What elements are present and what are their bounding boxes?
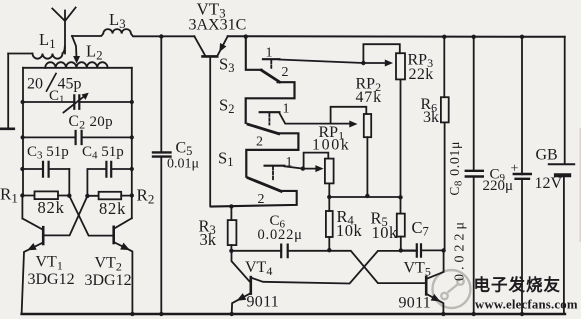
transistor VT5 9011 [426, 251, 443, 315]
svg-text:10k: 10k [372, 223, 399, 242]
inductor L3 [72, 29, 194, 36]
svg-text:www.elecfans.com: www.elecfans.com [475, 298, 578, 312]
svg-text:C8 0.01μ: C8 0.01μ [447, 141, 465, 196]
antenna [52, 8, 75, 54]
wire tank box left edge [22, 68, 24, 196]
svg-text:82k: 82k [99, 199, 126, 218]
svg-text:0.022μ: 0.022μ [453, 218, 468, 281]
potentiometer RP1 100k [325, 159, 334, 211]
wire antenna to ground [7, 54, 9, 128]
transistor VT2 3DG12 [69, 196, 132, 314]
wire S1 pos1 to RP1 (wiper + top) [284, 153, 328, 172]
wire S2 pos1 to RP2 (wiper + top) [279, 107, 366, 127]
svg-text:2: 2 [258, 192, 265, 207]
resistor R3 3k [228, 206, 237, 250]
wire top +V rail [228, 35, 565, 38]
svg-text:3k: 3k [423, 109, 439, 126]
capacitor C7 [401, 244, 444, 256]
resistor R4 10k [326, 211, 333, 250]
capacitor C1 (variable 20/45p) [23, 93, 132, 112]
switch S3 [246, 37, 295, 123]
wire S3 pos1 to RP3 (wiper + top) [279, 44, 399, 66]
svg-text:2: 2 [256, 135, 263, 150]
capacitor C9 220u electrolytic [514, 37, 531, 314]
svg-text:47k: 47k [356, 89, 382, 106]
svg-text:2: 2 [282, 65, 289, 80]
resistor R1 82k [22, 191, 69, 199]
svg-text:9011: 9011 [247, 294, 280, 311]
svg-text:1: 1 [283, 102, 290, 117]
inductor L2 (on tank box top edge, antenna tap arrow) [23, 36, 132, 68]
watermark elecfans [433, 270, 471, 308]
potentiometer RP2 47k [364, 114, 371, 195]
resistor R5 10k [397, 197, 405, 250]
inductor L1 [8, 47, 65, 59]
transistor VT1 3DG12 [22, 196, 88, 315]
svg-text:电子发烧友: 电子发烧友 [474, 275, 562, 295]
svg-text:3DG12: 3DG12 [85, 272, 132, 289]
svg-text:20: 20 [27, 76, 43, 93]
svg-text:3k: 3k [200, 230, 217, 249]
wire RP1/RP2/RP3 bottoms to R5 top [329, 196, 400, 198]
wire bottom rail [22, 313, 565, 315]
svg-text:GB: GB [536, 147, 558, 164]
battery GB 12V [549, 37, 574, 314]
svg-text:82k: 82k [38, 198, 65, 217]
capacitor C2 20p [23, 131, 132, 144]
svg-text:+: + [511, 162, 519, 177]
svg-text:0.022μ: 0.022μ [258, 227, 303, 243]
capacitor C8 0.01u (label vertical) [466, 37, 483, 314]
ground [0, 128, 14, 131]
svg-text:12V: 12V [535, 175, 563, 192]
svg-text:3AX31C: 3AX31C [189, 17, 247, 34]
svg-text:45p: 45p [58, 76, 82, 93]
svg-text:9011: 9011 [399, 295, 432, 312]
resistor R2 82k [87, 192, 131, 200]
svg-text:0.01μ: 0.01μ [167, 157, 199, 172]
svg-text:1: 1 [266, 46, 273, 61]
resistor R6 3k [441, 37, 449, 251]
capacitor C5 0.01u [153, 37, 171, 315]
transistor VT3 3AX31C (PNP) [194, 36, 227, 206]
capacitor C4 51p [87, 162, 131, 196]
capacitor C3 51p [22, 162, 69, 196]
wire tank box right edge [131, 68, 133, 218]
svg-text:10k: 10k [336, 221, 363, 240]
svg-text:3DG12: 3DG12 [28, 271, 75, 288]
transistor VT4 9011 [232, 251, 251, 314]
svg-text:220μ: 220μ [483, 178, 514, 194]
svg-text:22k: 22k [409, 66, 434, 83]
switch S2 [246, 112, 298, 176]
svg-text:C4 51p: C4 51p [82, 144, 124, 162]
wire cross-coupling VT4/VT5 [251, 251, 426, 284]
capacitor C6 0.022u [231, 245, 329, 258]
svg-text:100k: 100k [312, 137, 350, 154]
switch S1 [211, 166, 297, 207]
svg-text:C3 51p: C3 51p [27, 144, 69, 162]
potentiometer RP3 22k [396, 53, 405, 197]
svg-text:C2 20p: C2 20p [69, 113, 113, 132]
